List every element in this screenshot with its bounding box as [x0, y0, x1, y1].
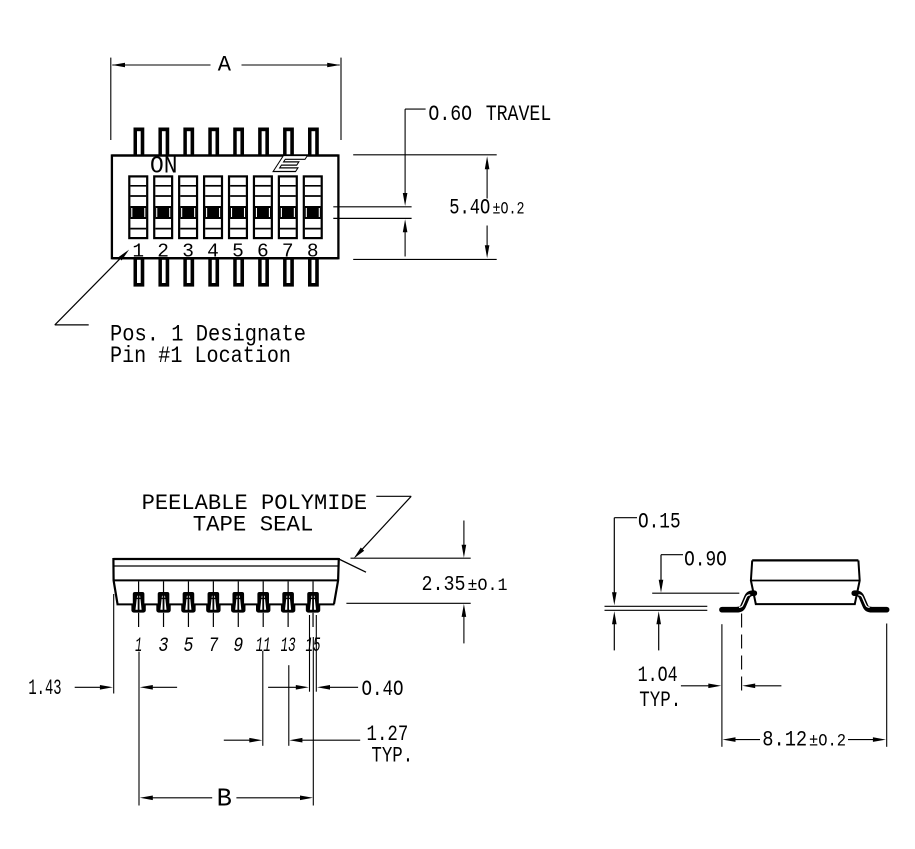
- svg-text:5: 5: [183, 635, 193, 658]
- svg-text:6: 6: [257, 240, 269, 262]
- svg-text:5: 5: [232, 240, 244, 262]
- svg-text:TYP.: TYP.: [639, 688, 681, 713]
- svg-text:TAPE SEAL: TAPE SEAL: [193, 511, 314, 537]
- svg-text:O.15: O.15: [638, 509, 681, 534]
- svg-text:Pin #1 Location: Pin #1 Location: [110, 343, 291, 370]
- svg-text:±O.2: ±O.2: [809, 732, 846, 752]
- svg-text:8: 8: [307, 240, 319, 262]
- svg-text:TYP.: TYP.: [371, 744, 413, 769]
- svg-text:3: 3: [182, 240, 194, 262]
- svg-text:5.4O: 5.4O: [449, 196, 490, 221]
- svg-text:13: 13: [281, 635, 296, 658]
- svg-text:9: 9: [233, 635, 243, 658]
- svg-text:1.O4: 1.O4: [638, 663, 678, 688]
- svg-text:1: 1: [132, 240, 144, 262]
- svg-text:O.4O: O.4O: [362, 677, 404, 702]
- svg-text:7: 7: [208, 635, 218, 658]
- svg-text:±O.2: ±O.2: [493, 200, 525, 220]
- svg-text:±O.1: ±O.1: [468, 576, 508, 596]
- svg-text:O.9O: O.9O: [684, 547, 727, 572]
- svg-text:1.43: 1.43: [28, 676, 61, 701]
- svg-text:2: 2: [157, 240, 169, 262]
- svg-text:7: 7: [282, 240, 294, 262]
- svg-text:B: B: [217, 785, 232, 814]
- svg-text:A: A: [218, 53, 232, 78]
- svg-text:4: 4: [207, 240, 219, 262]
- svg-text:ON: ON: [150, 153, 178, 180]
- svg-text:O.6O: O.6O: [428, 102, 472, 127]
- svg-text:3: 3: [159, 635, 169, 658]
- svg-text:8.12: 8.12: [762, 728, 807, 753]
- svg-text:2.35: 2.35: [422, 573, 466, 597]
- svg-text:TRAVEL: TRAVEL: [486, 102, 552, 127]
